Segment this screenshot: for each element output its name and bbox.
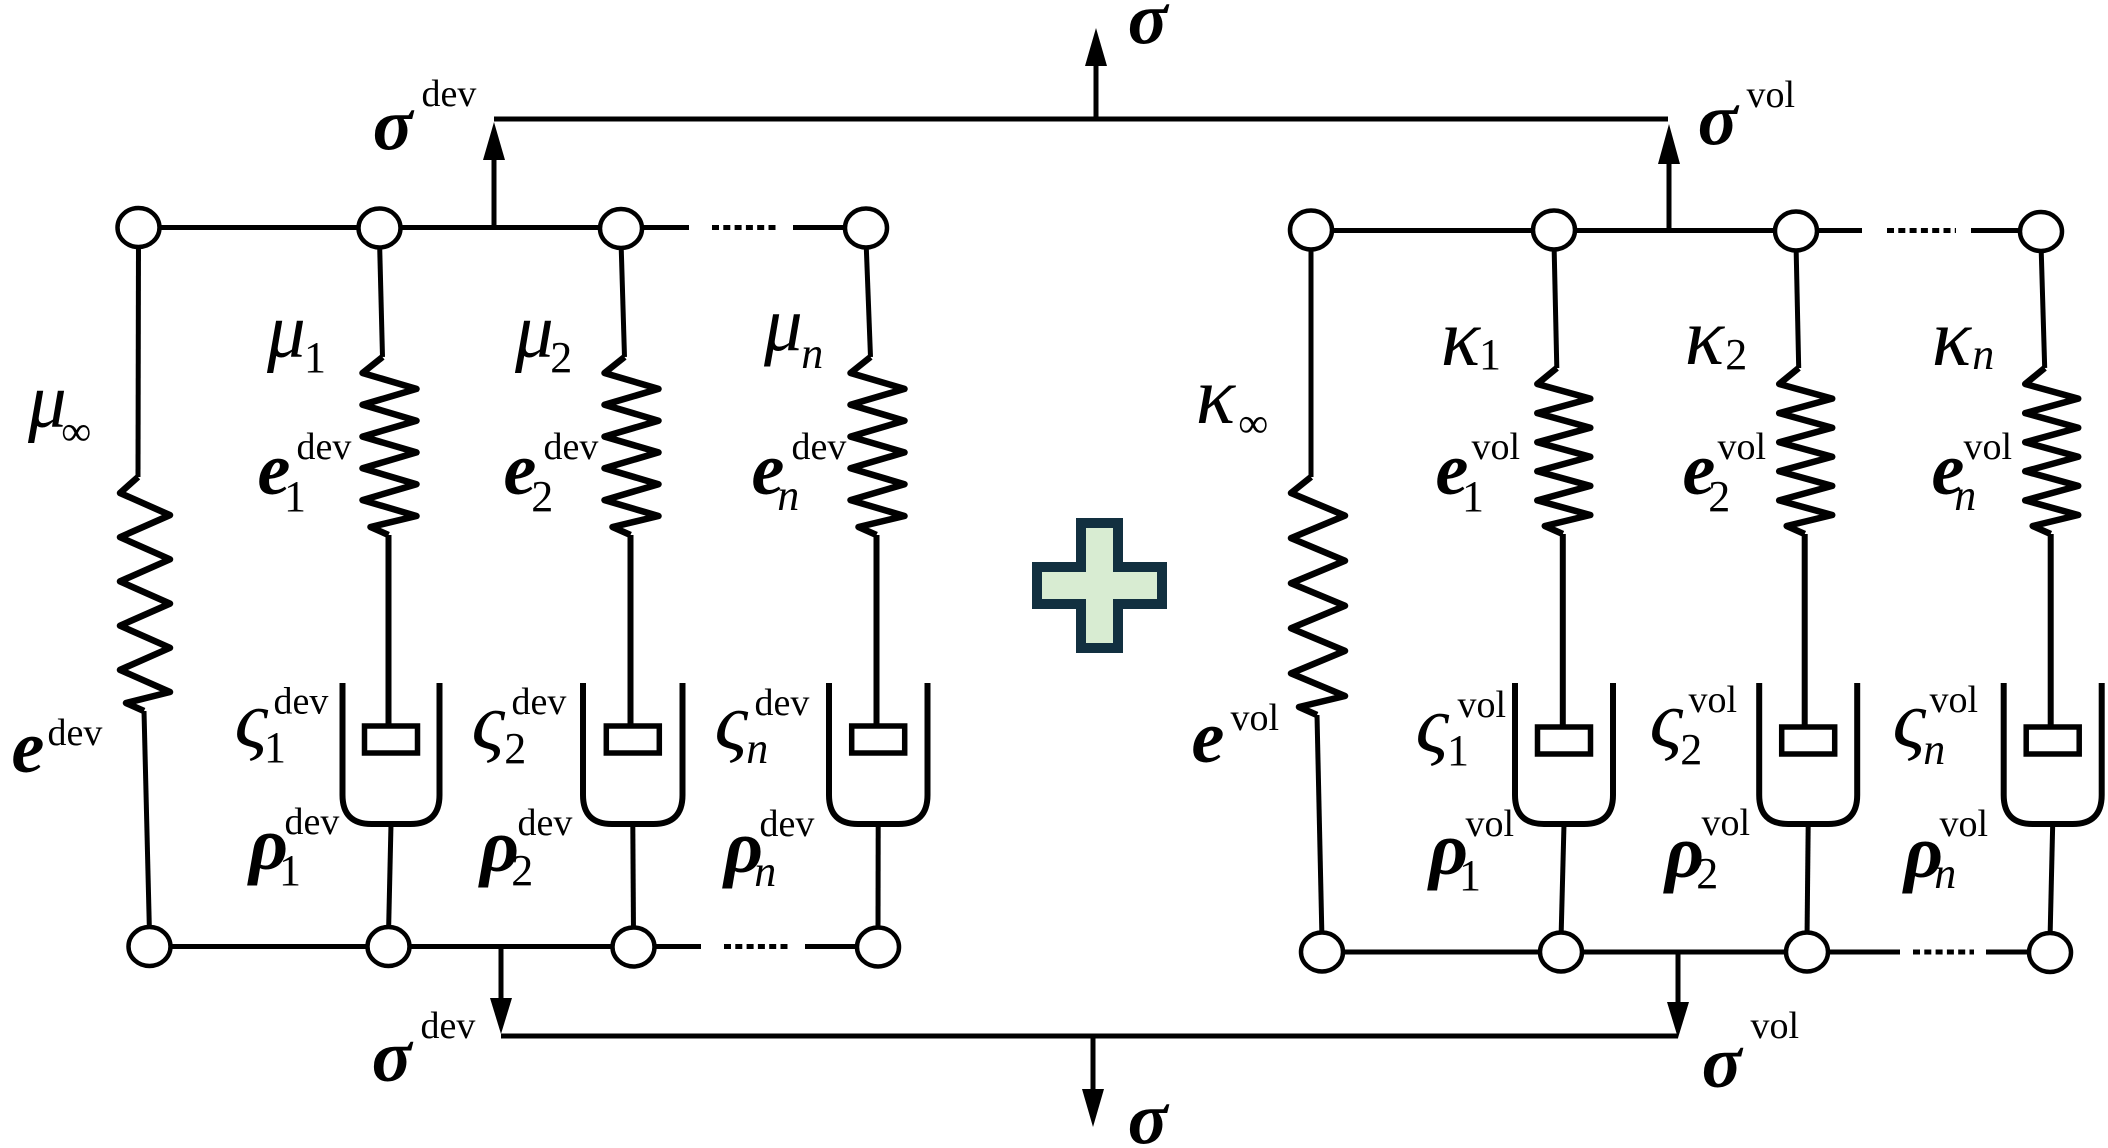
node top vol rail / kappa-inf xyxy=(1290,211,1332,250)
label rho_1-vol xyxy=(1427,803,1514,900)
svg-text:vol: vol xyxy=(1751,1005,1800,1047)
svg-text:vol: vol xyxy=(1466,803,1515,845)
wire: spring-to-dashpot rod (branch 1) xyxy=(386,535,392,729)
arrow sigma-dev (top left, pointing up from dev rail) xyxy=(483,122,505,227)
svg-text:n: n xyxy=(1923,725,1945,774)
svg-text:1: 1 xyxy=(284,472,306,521)
svg-text:1: 1 xyxy=(1479,330,1501,379)
svg-text:vol: vol xyxy=(1718,426,1767,468)
label e_1-dev xyxy=(258,426,352,521)
label kappa_n xyxy=(1932,292,1994,383)
label e_1-vol xyxy=(1436,426,1521,521)
svg-text:dev: dev xyxy=(48,712,103,754)
wire: dashpot-to-rail lead (branch 1) xyxy=(389,824,392,934)
svg-text:dev: dev xyxy=(755,682,810,724)
svg-text:ς: ς xyxy=(715,676,749,767)
label mu_n xyxy=(763,281,823,378)
spring kappa_2 xyxy=(1779,368,1832,534)
dashpot varsigma_n-vol (cup and piston) xyxy=(2004,683,2102,824)
wire: spring-to-dashpot rod (vol branch 2) xyxy=(1802,534,1808,730)
svg-text:dev: dev xyxy=(297,426,352,468)
svg-text:vol: vol xyxy=(1689,679,1738,721)
svg-text:n: n xyxy=(801,329,823,378)
wire: spring-to-dashpot rod (branch n) xyxy=(874,535,880,729)
svg-text:μ: μ xyxy=(514,288,554,374)
label sigma-vol (top) xyxy=(1698,74,1795,162)
label sigma-vol (bottom) xyxy=(1702,1005,1799,1104)
svg-text:n: n xyxy=(1954,471,1976,520)
svg-text:dev: dev xyxy=(544,426,599,468)
wire: mu-infinity branch top lead xyxy=(136,240,142,477)
svg-text:ς: ς xyxy=(1416,679,1450,770)
node bottom vol rail / kappa-inf xyxy=(1301,933,1343,972)
svg-text:σ: σ xyxy=(1128,0,1170,61)
node top dev rail / mu-inf xyxy=(118,208,160,247)
svg-text:2: 2 xyxy=(531,472,553,521)
wire: kappa-infinity branch top lead xyxy=(1309,242,1314,477)
svg-text:κ: κ xyxy=(1196,350,1237,441)
arrow sigma-vol (top right, pointing up from vol rail) xyxy=(1658,124,1680,231)
label varsigma_n-dev xyxy=(715,676,810,773)
svg-text:n: n xyxy=(1934,849,1956,898)
svg-text:1: 1 xyxy=(264,723,286,772)
label varsigma_2-vol xyxy=(1650,674,1737,774)
wire: volumetric bottom rail xyxy=(1322,950,2050,955)
svg-text:1: 1 xyxy=(1459,851,1481,900)
spring kappa_n xyxy=(2025,368,2078,534)
dashpot varsigma_1-vol (cup and piston) xyxy=(1515,683,1613,824)
svg-text:dev: dev xyxy=(792,426,847,468)
spring mu_2 xyxy=(605,357,659,535)
svg-text:e: e xyxy=(12,707,45,789)
svg-text:vol: vol xyxy=(1930,679,1979,721)
dashpot varsigma_2-dev (cup and piston) xyxy=(583,683,683,824)
spring mu_1 xyxy=(363,357,417,535)
svg-text:ς: ς xyxy=(472,676,506,767)
label rho_1-dev xyxy=(247,801,339,895)
wire: spring-to-dashpot rod (vol branch 1) xyxy=(1560,534,1566,730)
wire: deviatoric branch 2 top lead xyxy=(621,241,625,358)
svg-text:vol: vol xyxy=(1472,426,1521,468)
label sigma-dev (bottom) xyxy=(372,1005,476,1098)
dashpot varsigma_2-vol (cup and piston) xyxy=(1759,683,1857,824)
label mu_1 xyxy=(266,288,326,383)
wire: volumetric branch 2 top lead xyxy=(1796,243,1799,368)
wire: dashpot-to-rail lead (branch 2) xyxy=(630,824,636,934)
svg-text:dev: dev xyxy=(518,802,573,844)
wire: deviatoric branch n top lead xyxy=(866,240,871,357)
label varsigma_1-vol xyxy=(1416,679,1506,775)
spring kappa-infinity xyxy=(1291,477,1345,715)
svg-text:vol: vol xyxy=(1747,74,1796,116)
svg-text:dev: dev xyxy=(285,801,340,843)
label e-vol (strain of volumetric equilibrium spring) xyxy=(1192,697,1280,779)
svg-text:σ: σ xyxy=(1698,80,1740,162)
node bottom vol rail / kappa2 xyxy=(1786,933,1828,972)
svg-text:vol: vol xyxy=(1231,697,1280,739)
wire: dashpot-to-rail lead (branch n) xyxy=(876,824,881,934)
label rho_2-dev xyxy=(478,802,572,895)
label mu_2 xyxy=(514,288,572,383)
spring mu-infinity xyxy=(120,477,170,711)
dashpot varsigma_1-dev (cup and piston) xyxy=(343,683,440,824)
svg-text:vol: vol xyxy=(1458,684,1507,726)
node bottom dev rail / mun xyxy=(857,928,899,967)
label rho_n-dev xyxy=(722,803,814,896)
label sigma-dev (top) xyxy=(373,73,477,167)
wire: deviatoric top rail xyxy=(138,225,866,230)
svg-text:∞: ∞ xyxy=(61,409,91,455)
svg-text:dev: dev xyxy=(421,1005,476,1047)
svg-text:ς: ς xyxy=(1893,674,1927,765)
svg-text:κ: κ xyxy=(1932,292,1973,383)
svg-text:dev: dev xyxy=(422,73,477,115)
label varsigma_n-vol xyxy=(1893,674,1978,774)
label varsigma_2-dev xyxy=(472,676,567,773)
svg-text:vol: vol xyxy=(1702,802,1751,844)
label kappa_1 xyxy=(1441,292,1501,383)
svg-text:2: 2 xyxy=(1708,472,1730,521)
node top vol rail / kappa2 xyxy=(1775,212,1817,251)
node bottom vol rail / kappan xyxy=(2029,933,2071,972)
svg-text:dev: dev xyxy=(760,803,815,845)
svg-text:n: n xyxy=(746,724,768,773)
wire: dashpot-to-rail lead (vol branch 1) xyxy=(1561,824,1564,940)
node top dev rail / mu2 xyxy=(600,209,642,248)
node top dev rail / mun xyxy=(845,209,887,248)
spring kappa_1 xyxy=(1537,368,1590,534)
label e_2-vol xyxy=(1683,426,1767,521)
svg-text:σ: σ xyxy=(1128,1079,1170,1148)
svg-text:n: n xyxy=(1972,330,1994,379)
label e_2-dev xyxy=(504,426,599,521)
svg-text:1: 1 xyxy=(1447,726,1469,775)
svg-text:vol: vol xyxy=(1940,803,1989,845)
node top vol rail / kappan xyxy=(2020,212,2062,251)
svg-text:dev: dev xyxy=(512,681,567,723)
label rho_2-vol xyxy=(1663,802,1750,898)
wire: dashpot-to-rail lead (vol branch n) xyxy=(2050,824,2053,940)
svg-text:∞: ∞ xyxy=(1238,401,1268,447)
svg-text:n: n xyxy=(754,847,776,896)
arrow sigma (bottom center, pointing down) xyxy=(1082,1036,1104,1127)
wire: spring-to-dashpot rod (branch 2) xyxy=(628,535,634,729)
svg-text:n: n xyxy=(777,471,799,520)
label e-dev (strain of deviatoric equilibrium spring) xyxy=(12,707,103,789)
svg-text:μ: μ xyxy=(763,281,803,367)
spring mu_n xyxy=(851,357,905,535)
node bottom dev rail / mu-inf xyxy=(129,927,171,966)
label mu-infinity xyxy=(27,358,91,456)
arrow sigma (top center, pointing up) xyxy=(1085,28,1107,121)
svg-text:2: 2 xyxy=(550,333,572,382)
node bottom dev rail / mu1 xyxy=(368,927,410,966)
wire: deviatoric bottom rail xyxy=(149,944,878,949)
svg-text:e: e xyxy=(1192,697,1225,779)
node bottom vol rail / kappa1 xyxy=(1540,933,1582,972)
svg-text:2: 2 xyxy=(511,846,533,895)
svg-text:1: 1 xyxy=(1462,472,1484,521)
svg-text:1: 1 xyxy=(279,846,301,895)
wire: deviatoric branch 1 top lead xyxy=(380,240,383,357)
svg-text:2: 2 xyxy=(1696,849,1718,898)
svg-text:2: 2 xyxy=(1725,330,1747,379)
wire: volumetric branch n top lead xyxy=(2041,244,2045,369)
wire: dashpot-to-rail lead (vol branch 2) xyxy=(1807,824,1808,940)
wire: bottom stress bus sigma xyxy=(501,1034,1678,1039)
wire: volumetric top rail xyxy=(1311,228,2041,233)
svg-text:ς: ς xyxy=(1650,674,1684,765)
wire: top stress bus sigma xyxy=(494,117,1668,122)
node top vol rail / kappa1 xyxy=(1533,211,1575,250)
arrow sigma-vol (bottom right, pointing down) xyxy=(1667,952,1689,1038)
node bottom dev rail / mu2 xyxy=(613,928,655,967)
wire: mu-infinity branch bottom lead xyxy=(144,711,150,934)
svg-text:1: 1 xyxy=(304,333,326,382)
wire: spring-to-dashpot rod (vol branch n) xyxy=(2048,534,2054,730)
svg-text:κ: κ xyxy=(1441,292,1482,383)
label rho_n-vol xyxy=(1902,803,1988,898)
svg-text:2: 2 xyxy=(504,724,526,773)
svg-text:σ: σ xyxy=(1702,1022,1744,1104)
label e_n-dev xyxy=(752,426,847,520)
svg-text:2: 2 xyxy=(1680,725,1702,774)
svg-text:σ: σ xyxy=(372,1016,414,1098)
label varsigma_1-dev xyxy=(235,674,329,772)
dashpot varsigma_n-dev (cup and piston) xyxy=(829,683,928,824)
arrow sigma-dev (bottom left, pointing down) xyxy=(490,947,512,1035)
label kappa-infinity xyxy=(1196,350,1268,447)
node top dev rail / mu1 xyxy=(359,209,401,248)
wire: volumetric branch 1 top lead xyxy=(1554,242,1557,368)
label e_n-vol xyxy=(1932,426,2013,520)
svg-text:μ: μ xyxy=(266,288,306,374)
svg-text:vol: vol xyxy=(1964,426,2013,468)
plus symbol (deviatoric + volumetric superposition) xyxy=(1037,523,1162,648)
svg-text:κ: κ xyxy=(1685,291,1726,382)
svg-text:σ: σ xyxy=(373,85,415,167)
svg-text:dev: dev xyxy=(274,681,329,723)
label kappa_2 xyxy=(1685,291,1747,382)
wire: kappa-infinity branch bottom lead xyxy=(1317,715,1322,940)
